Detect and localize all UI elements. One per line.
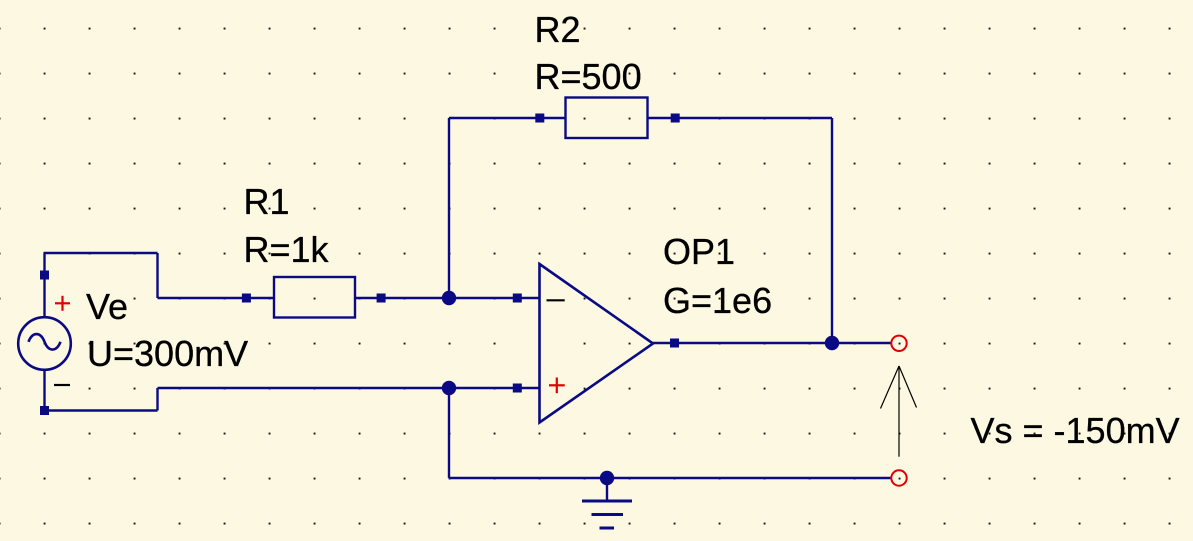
ground <box>582 478 632 528</box>
resistor R1 <box>242 181 386 318</box>
svg-text:U=300mV: U=300mV <box>87 333 248 374</box>
wire source bottom vertical <box>43 371 45 411</box>
wire to op-amp plus input <box>158 387 540 389</box>
pin square source top <box>40 271 49 280</box>
wire bottom step vertical <box>156 388 158 411</box>
op-amp plus input mark <box>549 378 565 394</box>
wire top-left horizontal <box>44 252 158 254</box>
svg-text:R2: R2 <box>535 9 581 50</box>
pin square R2 left <box>535 114 544 123</box>
pin square R1 left <box>242 294 251 303</box>
wire feedback vertical down <box>831 118 833 343</box>
svg-text:R=500: R=500 <box>535 56 642 97</box>
pin square R2 right <box>671 114 680 123</box>
svg-text:R=1k: R=1k <box>244 229 330 270</box>
wire source top vertical <box>43 253 45 317</box>
wire op-amp output to terminal <box>653 342 892 344</box>
wire ground rail horizontal <box>449 477 892 479</box>
terminal Vs top <box>891 336 906 351</box>
node junction ground rail <box>600 471 614 485</box>
svg-text:Vs = -150mV: Vs = -150mV <box>971 410 1180 451</box>
wire inverting node vertical up to R2 <box>448 118 450 298</box>
op-amp minus input mark <box>547 299 565 301</box>
pin square R1 right <box>377 294 386 303</box>
node junction noninverting input <box>442 381 456 395</box>
pin square source bottom <box>40 406 49 415</box>
svg-text:Ve: Ve <box>86 286 128 327</box>
wire left step vertical <box>156 253 158 298</box>
pin square op-amp inverting input <box>513 294 522 303</box>
wire R1 right to op-amp minus input <box>355 297 539 299</box>
wire R2 left horizontal <box>449 117 566 119</box>
source plus polarity mark <box>55 296 70 311</box>
source circle <box>18 317 71 370</box>
wire noninverting node vertical down <box>448 388 450 478</box>
node junction inverting input <box>442 291 456 305</box>
wire R2 right horizontal <box>648 117 833 119</box>
terminal Vs bottom <box>891 470 906 485</box>
svg-text:G=1e6: G=1e6 <box>663 280 772 321</box>
op-amp U1 <box>513 231 772 423</box>
voltage source Ve <box>18 271 71 416</box>
pin square op-amp output <box>670 339 679 348</box>
pin square op-amp noninverting input <box>513 384 522 393</box>
source sine symbol <box>29 334 61 349</box>
wire bottom-left horizontal <box>44 409 158 411</box>
wire to R1 left <box>158 297 275 299</box>
svg-text:OP1: OP1 <box>663 231 735 272</box>
resistor R2 <box>535 9 680 138</box>
node junction output feedback <box>825 336 839 350</box>
op-amp triangle <box>540 264 654 423</box>
source minus polarity mark <box>54 384 70 386</box>
arrow Vs <box>881 366 917 457</box>
svg-text:R1: R1 <box>244 181 290 222</box>
